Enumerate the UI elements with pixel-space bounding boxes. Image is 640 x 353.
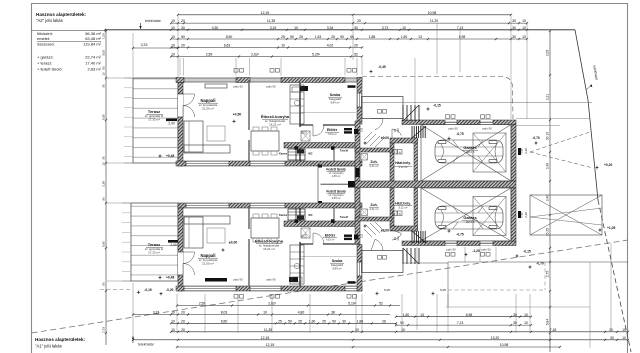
svg-text:10: 10 — [524, 313, 528, 317]
svg-text:8,50: 8,50 — [226, 35, 233, 39]
svg-text:Fedett tároló: Fedett tároló — [326, 168, 345, 172]
svg-text:+ terasz:: + terasz: — [37, 61, 52, 66]
svg-text:10: 10 — [622, 328, 626, 332]
svg-text:4,30: 4,30 — [212, 26, 219, 30]
svg-text:-1,20: -1,20 — [472, 249, 480, 253]
svg-text:50: 50 — [350, 35, 354, 39]
svg-text:20: 20 — [354, 44, 358, 48]
svg-text:10: 10 — [102, 72, 106, 76]
svg-text:25: 25 — [281, 35, 285, 39]
svg-text:20: 20 — [181, 44, 185, 48]
svg-text:2,83 m²: 2,83 m² — [332, 196, 341, 200]
svg-text:10: 10 — [171, 311, 175, 315]
svg-text:7,63 m²: 7,63 m² — [327, 132, 336, 136]
svg-text:6,50: 6,50 — [221, 319, 228, 323]
svg-text:5,19²: 5,19² — [348, 302, 357, 306]
svg-text:2,59: 2,59 — [206, 53, 213, 57]
svg-text:+1,05: +1,05 — [607, 226, 616, 230]
svg-text:16,21 m²: 16,21 m² — [269, 123, 281, 127]
svg-text:25: 25 — [322, 319, 326, 323]
svg-text:1,53: 1,53 — [315, 35, 322, 39]
svg-text:25: 25 — [278, 319, 282, 323]
svg-text:WC: WC — [308, 213, 312, 217]
svg-text:30: 30 — [354, 26, 358, 30]
svg-text:10: 10 — [524, 321, 528, 325]
svg-text:pafo 90: pafo 90 — [482, 127, 492, 131]
svg-text:38: 38 — [331, 311, 335, 315]
svg-text:20: 20 — [181, 19, 185, 23]
svg-text:Térelő: Térelő — [340, 215, 349, 219]
svg-text:Hasznos alapterületek:: Hasznos alapterületek: — [36, 12, 87, 17]
svg-text:20: 20 — [181, 328, 185, 332]
svg-text:Házt.hely.: Házt.hely. — [395, 161, 411, 165]
svg-text:25: 25 — [299, 35, 303, 39]
svg-text:Terasz: Terasz — [148, 242, 160, 247]
svg-text:90: 90 — [332, 319, 336, 323]
svg-text:2,79: 2,79 — [102, 327, 106, 333]
svg-text:2,83 m²: 2,83 m² — [332, 174, 341, 178]
svg-text:pafo 90: pafo 90 — [266, 85, 276, 89]
svg-text:11,35: 11,35 — [264, 328, 272, 332]
svg-text:3,11 m²: 3,11 m² — [399, 206, 408, 210]
svg-text:-0,70: -0,70 — [532, 136, 540, 140]
svg-text:4,80: 4,80 — [298, 311, 305, 315]
svg-text:30: 30 — [513, 313, 517, 317]
svg-text:30: 30 — [513, 321, 517, 325]
svg-text:30: 30 — [342, 319, 346, 323]
svg-text:Zuh.: Zuh. — [370, 160, 377, 164]
svg-text:10: 10 — [171, 19, 175, 23]
svg-text:3,40: 3,40 — [546, 195, 550, 202]
svg-text:3,19: 3,19 — [270, 26, 277, 30]
svg-text:2,40: 2,40 — [170, 243, 176, 247]
svg-text:20: 20 — [181, 311, 185, 315]
svg-text:+0,48: +0,48 — [166, 276, 175, 280]
svg-text:Étkező-konyha: Étkező-konyha — [261, 114, 290, 119]
svg-text:50: 50 — [290, 35, 294, 39]
svg-text:2,41 m²: 2,41 m² — [369, 207, 378, 211]
svg-text:Előtér: Előtér — [327, 128, 338, 132]
svg-text:10: 10 — [102, 162, 106, 166]
svg-text:Garázs: Garázs — [463, 215, 477, 220]
svg-text:GM 0,5: GM 0,5 — [466, 150, 475, 154]
svg-text:10: 10 — [281, 44, 285, 48]
svg-text:7,13: 7,13 — [457, 321, 464, 325]
svg-text:Hasznos alapterületek:: Hasznos alapterületek: — [35, 337, 86, 342]
svg-text:7,18: 7,18 — [550, 328, 557, 332]
svg-text:3,05: 3,05 — [546, 50, 550, 57]
svg-text:Kamra: Kamra — [279, 213, 288, 217]
svg-text:52: 52 — [354, 53, 358, 57]
svg-text:3,33: 3,33 — [141, 43, 148, 47]
svg-text:10: 10 — [171, 319, 175, 323]
svg-text:10,98: 10,98 — [428, 11, 437, 15]
svg-text:+ fedett tároló:: + fedett tároló: — [37, 67, 63, 72]
svg-text:2,98: 2,98 — [520, 212, 524, 218]
svg-text:22,74 m²: 22,74 m² — [85, 55, 101, 60]
svg-text:119,84 m²: 119,84 m² — [83, 41, 101, 46]
svg-text:6,98: 6,98 — [466, 313, 473, 317]
svg-text:Szoba: Szoba — [332, 259, 344, 263]
svg-text:2,59: 2,59 — [199, 302, 206, 306]
svg-text:21,50 m²: 21,50 m² — [202, 262, 214, 266]
svg-text:pafo 90: pafo 90 — [233, 85, 243, 89]
svg-text:30: 30 — [102, 84, 106, 88]
svg-text:Térelő: Térelő — [340, 149, 349, 153]
svg-text:5,84: 5,84 — [546, 319, 550, 326]
svg-text:30: 30 — [512, 26, 516, 30]
svg-text:"A2" jelü lakás: "A2" jelü lakás — [36, 18, 63, 23]
svg-text:30: 30 — [102, 156, 106, 160]
svg-text:5,05: 5,05 — [384, 288, 390, 292]
svg-text:"A1" jelü lakás: "A1" jelü lakás — [35, 344, 62, 349]
svg-text:2,62²: 2,62² — [251, 53, 260, 57]
svg-text:10,98: 10,98 — [500, 343, 509, 347]
svg-text:Nappali: Nappali — [200, 253, 215, 258]
svg-text:10: 10 — [622, 336, 626, 340]
svg-text:50: 50 — [102, 282, 106, 286]
svg-text:+0,50: +0,50 — [233, 113, 242, 117]
svg-text:2,40: 2,40 — [168, 122, 174, 126]
svg-text:3,11 m²: 3,11 m² — [399, 165, 408, 169]
svg-text:17,40 m²: 17,40 m² — [85, 61, 101, 66]
svg-text:-0,75: -0,75 — [456, 233, 463, 237]
svg-text:20: 20 — [355, 328, 359, 332]
svg-text:2,41 m²: 2,41 m² — [369, 164, 378, 168]
svg-text:3,34: 3,34 — [327, 26, 334, 30]
svg-text:1,30: 1,30 — [309, 319, 316, 323]
svg-text:2,83 m²: 2,83 m² — [87, 67, 101, 72]
svg-text:7,13: 7,13 — [457, 26, 464, 30]
svg-text:10: 10 — [402, 26, 406, 30]
svg-text:6,63: 6,63 — [224, 44, 231, 48]
svg-text:Garázs: Garázs — [463, 145, 477, 150]
svg-text:11,35: 11,35 — [267, 19, 275, 23]
svg-text:telekhatár: telekhatár — [145, 19, 162, 23]
svg-text:1,50: 1,50 — [403, 313, 410, 317]
svg-text:WC: WC — [308, 152, 312, 156]
svg-text:N: N — [399, 150, 401, 154]
svg-text:10: 10 — [171, 328, 175, 332]
svg-text:10: 10 — [263, 311, 267, 315]
svg-text:4,02: 4,02 — [327, 44, 334, 48]
svg-text:30: 30 — [512, 35, 516, 39]
svg-text:30 10: 30 10 — [546, 132, 550, 140]
svg-text:1,88: 1,88 — [369, 35, 376, 39]
svg-text:2,75: 2,75 — [546, 271, 550, 278]
svg-text:5,90: 5,90 — [102, 241, 106, 247]
svg-text:-0,19: -0,19 — [144, 288, 152, 292]
svg-text:2,48: 2,48 — [524, 148, 528, 154]
svg-text:pafo 90: pafo 90 — [448, 127, 458, 131]
svg-text:210: 210 — [305, 130, 308, 135]
svg-text:21,50 m²: 21,50 m² — [202, 107, 214, 111]
svg-text:30: 30 — [610, 336, 614, 340]
svg-text:30: 30 — [181, 26, 185, 30]
svg-text:5,05: 5,05 — [440, 288, 446, 292]
svg-text:Zuh.: Zuh. — [370, 203, 377, 207]
svg-text:26: 26 — [382, 319, 386, 323]
svg-text:10: 10 — [171, 26, 175, 30]
svg-text:13,20: 13,20 — [491, 336, 500, 340]
svg-text:10: 10 — [171, 35, 175, 39]
svg-text:-0,20: -0,20 — [166, 288, 174, 292]
svg-text:50: 50 — [181, 35, 185, 39]
svg-text:2,48: 2,48 — [524, 212, 528, 218]
svg-text:5,29²: 5,29² — [312, 53, 321, 57]
svg-text:Kamra: Kamra — [279, 152, 288, 156]
svg-text:10: 10 — [171, 53, 175, 57]
svg-text:6,98: 6,98 — [459, 35, 466, 39]
svg-text:7,63 m²: 7,63 m² — [325, 238, 334, 242]
svg-text:3,05: 3,05 — [102, 50, 106, 56]
svg-text:17,33 m²: 17,33 m² — [148, 251, 160, 255]
svg-text:12,15: 12,15 — [261, 11, 270, 15]
svg-text:Nappali: Nappali — [200, 98, 215, 103]
svg-text:+0,20: +0,20 — [604, 163, 613, 167]
svg-text:9,84 m²: 9,84 m² — [332, 267, 341, 271]
svg-text:Fedett tároló: Fedett tároló — [326, 190, 345, 194]
svg-text:16,21 m²: 16,21 m² — [263, 247, 275, 251]
svg-text:1,88: 1,88 — [357, 319, 364, 323]
svg-text:N: N — [399, 212, 401, 216]
svg-text:210: 210 — [361, 233, 364, 238]
svg-text:2,62²: 2,62² — [268, 302, 277, 306]
svg-text:±0,00: ±0,00 — [381, 136, 389, 140]
svg-text:20: 20 — [357, 19, 361, 23]
svg-text:1,05: 1,05 — [102, 33, 106, 39]
svg-text:10: 10 — [401, 328, 405, 332]
svg-text:+0,48: +0,48 — [166, 154, 175, 158]
svg-text:-0,75: -0,75 — [456, 132, 463, 136]
svg-text:17,33 m²: 17,33 m² — [148, 118, 160, 122]
svg-text:12,15: 12,15 — [266, 343, 275, 347]
svg-text:-0,70: -0,70 — [536, 262, 544, 266]
svg-text:3,21: 3,21 — [546, 94, 550, 101]
svg-text:10: 10 — [522, 35, 526, 39]
svg-text:Terasz: Terasz — [148, 109, 160, 114]
svg-text:20: 20 — [181, 319, 185, 323]
svg-text:8,03: 8,03 — [221, 311, 228, 315]
svg-text:±0,00: ±0,00 — [229, 241, 238, 245]
svg-text:30: 30 — [512, 19, 516, 23]
svg-text:52: 52 — [379, 302, 383, 306]
svg-text:25: 25 — [331, 35, 335, 39]
svg-text:90: 90 — [340, 35, 344, 39]
svg-text:pafo 90: pafo 90 — [481, 248, 491, 252]
svg-text:pafo 90: pafo 90 — [266, 278, 276, 282]
svg-text:13: 13 — [418, 35, 422, 39]
svg-text:210: 210 — [397, 128, 400, 133]
svg-text:11,20: 11,20 — [430, 19, 438, 23]
svg-text:Előtér: Előtér — [325, 234, 336, 238]
svg-text:3,40: 3,40 — [546, 163, 550, 170]
svg-text:1,50: 1,50 — [401, 35, 408, 39]
svg-text:3,33: 3,33 — [153, 311, 160, 315]
svg-text:+ garázs:: + garázs: — [37, 55, 54, 60]
svg-text:-0,15: -0,15 — [433, 104, 441, 108]
svg-text:25: 25 — [298, 319, 302, 323]
svg-text:Házt.hely.: Házt.hely. — [395, 202, 411, 206]
svg-text:210: 210 — [361, 127, 364, 132]
svg-text:összesen:: összesen: — [37, 41, 55, 46]
svg-text:9,84 m²: 9,84 m² — [330, 101, 339, 105]
svg-text:10: 10 — [171, 44, 175, 48]
svg-text:12,15: 12,15 — [261, 336, 270, 340]
svg-text:-0,15: -0,15 — [523, 250, 531, 254]
svg-text:telekhatár: telekhatár — [138, 343, 155, 347]
svg-text:Szoba: Szoba — [330, 93, 342, 97]
svg-text:pafo 90: pafo 90 — [446, 248, 456, 252]
svg-text:50: 50 — [288, 319, 292, 323]
svg-text:10: 10 — [294, 26, 298, 30]
svg-text:2,38: 2,38 — [102, 181, 106, 187]
svg-text:210: 210 — [305, 233, 308, 238]
svg-text:-0,45: -0,45 — [378, 65, 386, 69]
svg-text:10: 10 — [522, 26, 526, 30]
svg-text:210: 210 — [397, 236, 400, 241]
svg-text:GM 0,5: GM 0,5 — [466, 220, 475, 224]
svg-text:pafo 90: pafo 90 — [233, 278, 243, 282]
svg-text:90: 90 — [102, 197, 106, 201]
svg-text:3,73: 3,73 — [382, 26, 389, 30]
svg-text:5,90: 5,90 — [102, 114, 106, 120]
svg-text:13: 13 — [420, 313, 424, 317]
svg-text:10: 10 — [522, 19, 526, 23]
svg-text:50: 50 — [102, 66, 106, 70]
